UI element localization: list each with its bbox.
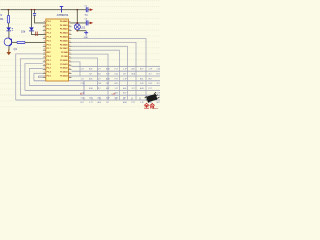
pin R10 number (69, 56, 70, 57)
svg-text:127: 127 (98, 78, 101, 80)
svg-text:P0.1/AD1: P0.1/AD1 (60, 24, 68, 27)
wire right row 2 (72, 70, 161, 72)
pin L15 stub (43, 77, 46, 79)
pin L5 number (44, 37, 45, 38)
node junction B (31, 9, 33, 11)
pin L7 number (44, 44, 45, 45)
svg-text:P0.0/AD0: P0.0/AD0 (60, 20, 68, 23)
resistor R1 (7, 16, 9, 24)
svg-text:E07: E07 (106, 88, 109, 90)
pin L3 stub (43, 30, 46, 32)
svg-text:www.ic: www.ic (152, 108, 158, 110)
pin L1 stub (43, 22, 46, 24)
svg-text:P2.5/A13: P2.5/A13 (60, 71, 68, 74)
pin L2 stub (43, 26, 46, 28)
pin R1 number (69, 21, 70, 22)
watermark chip logo (145, 92, 160, 102)
svg-text:127: 127 (132, 88, 135, 90)
svg-text:C06: C06 (81, 98, 84, 100)
grid net labels (81, 68, 162, 104)
pin L1 number (44, 21, 45, 22)
svg-text:147: 147 (89, 98, 92, 100)
svg-text:C06: C06 (157, 69, 160, 71)
wire right nest 6 (72, 58, 98, 90)
pin L10 stub (43, 57, 46, 59)
tick stubs on grid row (84, 97, 156, 100)
wire D1 to Q1 collector (8, 31, 10, 38)
pin R3 number (69, 29, 70, 30)
svg-text:P2.4/A12: P2.4/A12 (60, 67, 68, 70)
wire grid row from nest 3 (25, 89, 160, 91)
wire right nest 1 (72, 39, 147, 101)
wire left nest 4 (29, 68, 42, 85)
svg-text:A11: A11 (98, 97, 101, 100)
svg-text:1.17: 1.17 (81, 69, 85, 71)
terminal arrow row2 (90, 22, 94, 25)
svg-text:Q1: Q1 (14, 47, 18, 51)
pin R15 number (69, 76, 70, 77)
wire rail to D2 (31, 10, 33, 28)
svg-text:P0.3/AD3: P0.3/AD3 (60, 32, 68, 35)
pin R6 number (69, 41, 70, 42)
wire rail row1 to cap (77, 9, 89, 11)
wire grid connector x84 (83, 81, 85, 95)
wire right nest 3 (72, 46, 128, 100)
svg-text:P2.6/A14: P2.6/A14 (60, 75, 68, 78)
svg-text:AT89C51: AT89C51 (57, 13, 69, 17)
wire rail to lamp (76, 10, 78, 23)
pin R7 number (69, 44, 70, 45)
wire grid row from nest 1 (16, 99, 160, 101)
svg-text:A06: A06 (98, 101, 101, 104)
pin R14 number (69, 72, 70, 73)
svg-text:E07: E07 (81, 102, 84, 104)
lamp LS1 (74, 24, 80, 30)
terminal arrow row1 (90, 8, 94, 11)
svg-text:147: 147 (89, 74, 92, 76)
svg-text:A31: A31 (132, 68, 135, 71)
svg-text:A06: A06 (89, 68, 92, 71)
svg-text:1.17: 1.17 (89, 102, 93, 104)
pin L12 number (44, 64, 45, 65)
pin L13 stub (43, 69, 46, 71)
pin R9 number (69, 52, 70, 53)
wire R1 to D1 (8, 23, 10, 27)
svg-text:C4B: C4B (112, 94, 117, 96)
pin R11 number (69, 60, 70, 61)
pin L6 number (44, 41, 45, 42)
svg-text:B07: B07 (140, 69, 143, 71)
svg-text:A11: A11 (115, 82, 118, 85)
svg-text:1.17: 1.17 (115, 88, 119, 90)
pin R13 stub (69, 69, 72, 71)
svg-text:D05: D05 (115, 74, 118, 76)
wire right nest 7 (72, 62, 81, 76)
svg-text:A31: A31 (140, 77, 143, 80)
pin L4 number (44, 33, 45, 34)
pin R2 stub (69, 26, 72, 28)
pin L11 number (44, 60, 45, 61)
svg-text:127: 127 (98, 69, 101, 71)
wire right nest 5 (72, 54, 109, 100)
svg-text:P2.2/A10: P2.2/A10 (60, 59, 68, 62)
pin R10 stub (69, 57, 72, 59)
svg-text:D05: D05 (115, 98, 118, 100)
pin R12 stub (69, 65, 72, 67)
pin L12 stub (43, 65, 46, 67)
pin L5 stub (43, 38, 46, 40)
pin L15 number (44, 76, 45, 77)
svg-text:A06: A06 (89, 77, 92, 80)
svg-text:C06: C06 (98, 83, 101, 85)
ground bars (84, 31, 88, 35)
wire left nest 6 (38, 76, 42, 78)
svg-text:117: 117 (98, 88, 101, 90)
pin R12 number (69, 64, 70, 65)
wire left nest 2 (20, 59, 42, 95)
pin R8 number (69, 48, 70, 49)
svg-text:P17: P17 (115, 78, 118, 80)
svg-text:P0.5/AD5: P0.5/AD5 (60, 39, 68, 42)
decorative grid dots (0, 1, 160, 107)
svg-text:167: 167 (123, 98, 126, 100)
pin L8 number (44, 48, 45, 49)
svg-text:B07: B07 (149, 78, 152, 80)
pin R1 stub (69, 22, 72, 24)
wire right nest 4 (72, 50, 120, 100)
pin L6 stub (43, 41, 46, 43)
IC U1 body (46, 19, 69, 81)
pin L7 stub (43, 45, 46, 47)
diode D2 (29, 27, 34, 31)
pin R14 stub (69, 73, 72, 75)
svg-text:LS1: LS1 (81, 25, 86, 29)
svg-text:E07: E07 (157, 74, 160, 76)
pin R5 stub (69, 38, 72, 40)
wire C1 to IC pin (35, 15, 46, 23)
svg-text:B07: B07 (157, 102, 160, 104)
wire top power rail (1, 9, 78, 11)
svg-text:A06: A06 (123, 87, 126, 90)
node junction C (34, 9, 36, 11)
pin R9 stub (69, 53, 72, 55)
node junction A (8, 9, 10, 11)
diode D1 (6, 27, 12, 31)
transistor Q1 (4, 38, 12, 46)
pin R11 stub (69, 61, 72, 63)
pin R7 stub (69, 45, 72, 47)
sheet background (0, 0, 160, 110)
pin L10 number (44, 56, 45, 57)
ground arrow below Q1 (7, 49, 12, 55)
svg-text:R1: R1 (0, 17, 4, 21)
svg-text:2.2F: 2.2F (157, 93, 161, 95)
capacitor C2 bars (86, 7, 88, 12)
wire rail to R1 (7, 10, 9, 16)
wire left nest 5 (34, 73, 43, 81)
svg-text:147: 147 (106, 83, 109, 85)
svg-text:167: 167 (157, 83, 160, 85)
wire Q1 base to R2 (12, 41, 18, 43)
svg-text:117: 117 (149, 74, 152, 76)
pin R3 stub (69, 30, 72, 32)
svg-text:10k: 10k (21, 30, 26, 34)
wire row2 from pin (71, 22, 90, 24)
pin L8 stub (43, 49, 46, 51)
node junction E (76, 9, 78, 11)
node lamp top (76, 22, 78, 24)
pin L4 stub (43, 34, 46, 36)
wire rail to C1 (34, 10, 36, 14)
pin R2 number (69, 25, 70, 26)
pin L13 number (44, 68, 45, 69)
wire R2 to IC (25, 41, 46, 43)
pin L9 stub (43, 53, 46, 55)
pin R8 stub (69, 49, 72, 51)
svg-text:D05: D05 (149, 83, 152, 85)
wire right row 1 (72, 65, 161, 67)
svg-text:B07: B07 (123, 93, 126, 95)
pin R5 number (69, 37, 70, 38)
pin R13 number (69, 68, 70, 69)
svg-text:1.17: 1.17 (81, 78, 85, 80)
svg-text:127: 127 (106, 102, 109, 104)
svg-text:P0.6/AD6: P0.6/AD6 (60, 43, 68, 46)
svg-text:P2.3/A11: P2.3/A11 (60, 63, 67, 66)
pin L2 number (44, 25, 45, 26)
svg-text:P0.2/AD2: P0.2/AD2 (60, 28, 68, 31)
wire Q1 emitter down (8, 46, 10, 50)
svg-text:P0.7/AD7: P0.7/AD7 (60, 47, 68, 50)
pin R4 stub (69, 34, 72, 36)
svg-text:P17: P17 (115, 69, 118, 71)
pin L3 number (44, 29, 45, 30)
svg-text:5V: 5V (0, 13, 2, 17)
wire D2 to IC pin (32, 31, 46, 34)
wire grid row from nest 5 (34, 80, 160, 82)
svg-text:GND: GND (84, 37, 89, 39)
svg-text:P2.1/A9: P2.1/A9 (61, 55, 68, 58)
resistor R2 (17, 41, 25, 43)
pin L14 number (44, 72, 45, 73)
power terminal tick (60, 7, 63, 13)
capacitor C3 bars (86, 20, 88, 25)
wire grid row from nest 2 (20, 94, 160, 96)
crystal marks (36, 32, 38, 37)
node lamp bottom (76, 30, 78, 32)
svg-text:167: 167 (123, 74, 126, 76)
wire grid row from nest 6 (38, 75, 160, 77)
svg-text:A11: A11 (98, 73, 101, 76)
wire left nest 1 (16, 54, 43, 100)
pin L9 number (44, 52, 45, 53)
wire grid row from nest 4 (29, 85, 160, 87)
svg-text:P17: P17 (132, 102, 135, 104)
pin R6 stub (69, 41, 72, 43)
pin L11 stub (43, 61, 46, 63)
svg-text:P2.0/A8: P2.0/A8 (61, 51, 68, 54)
svg-text:P17: P17 (149, 88, 152, 90)
pin L14 stub (43, 73, 46, 75)
wire right nest 2 (72, 42, 137, 100)
wire left nest 3 (25, 64, 43, 91)
wire lamp bottom to gnd (77, 30, 86, 32)
pin R15 stub (69, 77, 72, 79)
capacitor C1 (33, 13, 36, 15)
pin R4 number (69, 33, 70, 34)
svg-text:P0.4/AD4: P0.4/AD4 (60, 36, 68, 39)
